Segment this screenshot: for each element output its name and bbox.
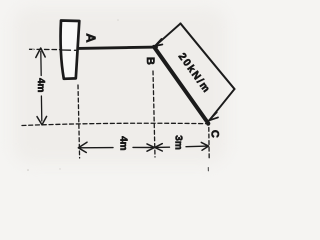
left dimension up arrow [36,48,45,58]
svg-text:C: C [209,130,221,138]
3m dimension right arrow and shaft [186,145,208,148]
bottom 4m dimension right arrow and shaft [133,146,154,148]
svg-text:3m: 3m [173,135,184,150]
centerline dash-dot inside plate [62,49,71,51]
load arrow at B [155,39,162,46]
bottom 4m dimension left arrow and shaft [78,147,113,149]
stray speck marks (photo artifacts) [27,19,119,171]
left dimension down arrow [37,116,47,124]
left 4m dimension shaft [40,52,42,76]
3m dimension left arrow and shaft [155,146,170,148]
vertical dashed under C [208,128,210,161]
support plate [61,21,80,79]
member AB [78,47,157,48]
svg-text:A: A [84,33,99,43]
vertical dashed under B [153,71,155,157]
centerline dash through support at y=49 [30,48,62,50]
svg-text:4m: 4m [35,78,46,93]
svg-text:4m: 4m [118,136,129,151]
load arrow at C [209,112,218,120]
load rectangle right edge [209,89,234,120]
node C ink blob [206,122,210,126]
member BC [154,47,208,123]
svg-text:B: B [144,57,156,65]
load rectangle top edge [181,24,235,90]
vertical dashed under support [78,85,80,158]
bottom long dashed line [22,123,208,125]
load rectangle left edge [155,24,180,46]
